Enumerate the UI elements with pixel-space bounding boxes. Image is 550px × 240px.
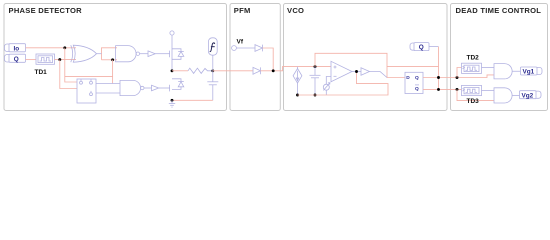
svg-text:Io: Io xyxy=(14,45,20,52)
wire D1 down to row xyxy=(263,48,274,71)
svg-text:TD3: TD3 xyxy=(467,98,480,105)
ground xyxy=(169,100,175,107)
node dot ground rail xyxy=(171,99,174,102)
svg-text:PFM: PFM xyxy=(234,6,251,15)
wire Qbar output xyxy=(423,88,462,90)
port Vg2 xyxy=(520,91,542,100)
svg-text:Vg1: Vg1 xyxy=(523,69,535,76)
resistor R1 xyxy=(188,68,213,73)
buffer U6 xyxy=(144,85,170,91)
wire Vf to diode D1 xyxy=(236,47,255,49)
wire TD3 to AND2 xyxy=(482,90,495,92)
svg-text:VCO: VCO xyxy=(287,6,304,15)
block frame DEAD TIME CONTROL xyxy=(451,4,548,111)
wire XOR out jog to NAND1 xyxy=(96,53,101,55)
current source IS1 xyxy=(293,67,302,95)
NAND gate U2 xyxy=(116,46,140,62)
diode D2 xyxy=(253,67,261,74)
wire PD node to PFM diode xyxy=(213,70,253,72)
transistor Q2 with body diode xyxy=(170,79,184,92)
latch U4 xyxy=(77,79,96,103)
wire bridge over latch xyxy=(65,75,113,77)
svg-text:TD2: TD2 xyxy=(467,55,480,62)
node dot Qbar xyxy=(456,88,459,91)
svg-text:Vg2: Vg2 xyxy=(522,92,534,99)
node dot PFM xyxy=(272,69,275,72)
wire Q to TD1 xyxy=(26,59,37,61)
node dot NAND1 lower input xyxy=(111,58,114,61)
port Q (VCO) xyxy=(410,43,439,52)
wire top feedback rect xyxy=(315,53,405,77)
block frame PHASE DETECTOR xyxy=(4,4,227,111)
delay block TD2 xyxy=(462,63,482,73)
port Vg1 xyxy=(521,67,543,76)
AND gate U10 xyxy=(494,64,512,79)
node dot cap bottom xyxy=(314,94,317,97)
port Vf xyxy=(232,39,244,51)
port Q xyxy=(5,54,26,63)
block frame VCO xyxy=(284,4,448,111)
node dot C xyxy=(456,76,459,79)
node dot B xyxy=(437,76,440,79)
comparator U7 xyxy=(331,61,352,81)
wire AND2 to Vg2 xyxy=(512,94,519,96)
svg-text:Q: Q xyxy=(14,56,19,63)
node dot comparator out xyxy=(355,70,358,73)
wire AND1 to Vg1 xyxy=(512,70,520,72)
wire node to resistor xyxy=(172,70,188,72)
wire D2 to VCO xyxy=(261,67,332,71)
wire branch Io-net down to latch xyxy=(65,48,77,82)
AND gate U11 xyxy=(494,88,512,103)
block frame PFM xyxy=(230,4,280,111)
capacitor C2 xyxy=(310,67,321,95)
node dot Qbar B xyxy=(437,88,440,91)
wire Qbar down to AND2 xyxy=(457,89,494,100)
wire TD2 to AND1 xyxy=(482,67,495,69)
wire branch down to NAND2 xyxy=(112,60,114,84)
svg-text:DEAD TIME CONTROL: DEAD TIME CONTROL xyxy=(456,6,542,15)
supply node circle xyxy=(170,31,174,48)
wire latch to NAND2 top xyxy=(96,83,120,85)
node dot at RC xyxy=(211,69,214,72)
buffer U8 xyxy=(361,68,387,78)
flip-flop U9 xyxy=(405,72,423,93)
node dot on TD1 wire xyxy=(58,58,61,61)
node dot VCO input xyxy=(314,65,317,68)
wire branch Q-net down to latch xyxy=(60,60,77,89)
node dot rail under current source xyxy=(296,94,299,97)
wire VCO bottom rail xyxy=(298,72,389,96)
svg-text:Q: Q xyxy=(415,86,419,92)
node dot on Io wire xyxy=(63,46,66,49)
NAND gate U5 xyxy=(120,80,144,95)
diode D1 xyxy=(255,45,263,52)
wire Io to XOR xyxy=(26,47,77,49)
delay block TD3 xyxy=(462,85,482,95)
svg-text:Q: Q xyxy=(419,44,424,51)
svg-text:D: D xyxy=(406,75,410,81)
wire XOR splitter to NAND1 inputs xyxy=(102,48,118,60)
wire riser to TD2 xyxy=(457,68,462,78)
wire Q port down xyxy=(438,47,440,90)
node dot mid bridge xyxy=(171,69,174,72)
wire Q output row xyxy=(423,75,494,78)
wire latch to NAND2 bottom xyxy=(96,92,120,94)
wire mid feedback xyxy=(387,66,439,68)
buffer U3 xyxy=(140,51,170,57)
capacitor C1 xyxy=(207,71,218,101)
wire comparator out xyxy=(352,71,361,73)
port Io xyxy=(5,44,26,53)
svg-text:TD1: TD1 xyxy=(35,69,48,76)
probe f xyxy=(208,38,217,71)
wire bottom rail PD xyxy=(172,99,213,101)
wire TD1 to XOR xyxy=(55,59,77,61)
svg-text:Q: Q xyxy=(415,75,419,81)
svg-text:PHASE DETECTOR: PHASE DETECTOR xyxy=(9,6,83,15)
delay block TD1 xyxy=(36,54,55,64)
transistor Q1 with body diode xyxy=(170,48,184,71)
XOR gate U1 xyxy=(71,45,97,62)
source V1 xyxy=(323,77,331,96)
svg-text:Vf: Vf xyxy=(237,39,244,46)
